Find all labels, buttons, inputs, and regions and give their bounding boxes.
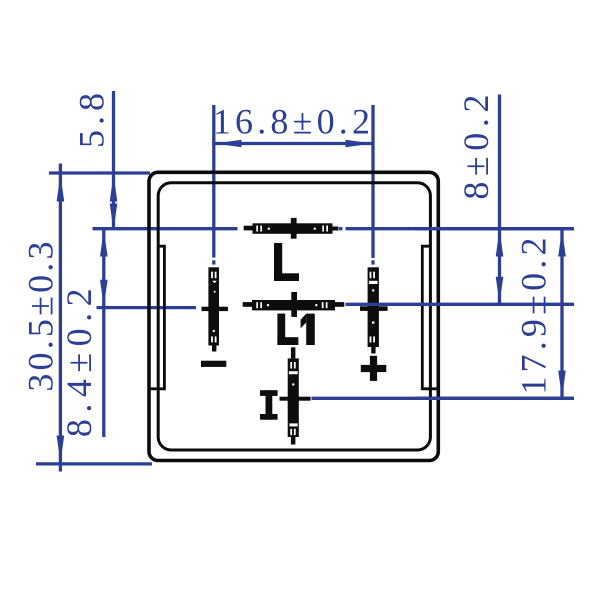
arrow 30.5 bottom xyxy=(57,436,65,463)
wire: row3 right over body edge xyxy=(415,397,574,400)
relay body outer outline xyxy=(149,172,438,460)
label L xyxy=(274,243,299,281)
arrow 16.8 left xyxy=(215,140,242,148)
arrow 8 bottom xyxy=(496,277,504,304)
wire: dimension line 5.8 vertical xyxy=(112,91,115,229)
right side rail xyxy=(422,246,438,389)
pin minus (left vertical pin) xyxy=(208,267,219,345)
pin L1 details xyxy=(256,302,258,308)
wire: extension line right pin center xyxy=(371,105,374,258)
wire: dimension line 30.5±0.3 vertical xyxy=(59,164,62,472)
pin L (top horizontal pin) xyxy=(244,226,253,231)
wire: row3 line xyxy=(312,397,575,400)
pin minus details xyxy=(211,272,213,279)
label plus xyxy=(361,365,387,372)
wire: top-left extension line of body top edge xyxy=(49,171,150,174)
arrow 5.8 top xyxy=(110,175,118,202)
svg-text:16.8±0.2: 16.8±0.2 xyxy=(213,102,374,142)
wire: dimension line 17.9±0.2 vertical xyxy=(560,229,563,399)
pin I details xyxy=(290,362,292,369)
arrow 5.8 bottom xyxy=(110,204,118,231)
svg-text:8±0.2: 8±0.2 xyxy=(456,89,496,200)
svg-text:30.5±0.3: 30.5±0.3 xyxy=(21,238,61,391)
wire: extension line left pin center xyxy=(212,105,215,258)
wire: row2 line right segment (over plus pin) xyxy=(346,303,575,306)
wire: row1 line right segment xyxy=(346,227,575,230)
arrow 17.9 bottom xyxy=(558,371,566,398)
arrow 30.5 top xyxy=(57,175,65,202)
pin L1 (middle horizontal pin) xyxy=(243,302,252,307)
relay body inner outline xyxy=(158,183,430,450)
wire: row1 small dash right of L pin xyxy=(339,227,343,230)
wire: bottom-left extension line of body bottom edge xyxy=(36,462,152,465)
wire: row1 right over body edge xyxy=(415,227,574,230)
arrow 17.9 top xyxy=(558,230,566,257)
wire: dimension line 8.4±0.2 vertical xyxy=(102,229,105,437)
wire: dimension line 16.8±0.2 horizontal xyxy=(214,142,373,145)
arrow 16.8 right xyxy=(346,140,373,148)
arrow 8.4 bottom xyxy=(100,280,108,307)
left side rail xyxy=(149,246,164,389)
svg-text:8.4±0.2: 8.4±0.2 xyxy=(59,282,99,437)
pin plus (right vertical pin) xyxy=(368,267,379,347)
pin I (bottom vertical pin) xyxy=(291,347,296,358)
wire: row1 line left segment xyxy=(93,227,238,230)
pin L details xyxy=(256,226,258,232)
wire: dimension line 8±0.2 vertical xyxy=(498,95,501,305)
arrow 8 top xyxy=(496,230,504,257)
label minus xyxy=(201,361,226,367)
arrow 8.4 top xyxy=(100,230,108,257)
svg-text:17.9±0.2: 17.9±0.2 xyxy=(514,233,554,394)
pin plus details xyxy=(370,272,372,279)
label L1 xyxy=(277,314,314,345)
svg-text:5.8: 5.8 xyxy=(72,88,112,148)
wire: row2 line left segment xyxy=(97,306,197,309)
label I xyxy=(260,390,278,420)
pin texture details (white) xyxy=(211,226,377,436)
